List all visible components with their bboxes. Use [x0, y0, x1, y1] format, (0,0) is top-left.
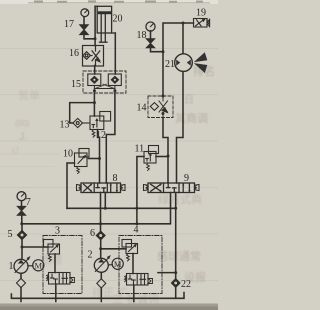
svg-text:绿方式典: 绿方式典	[158, 192, 202, 206]
sequence valve 10	[75, 149, 90, 174]
wire branch to relief 4a	[101, 248, 126, 250]
wire strainer2 to tank	[100, 288, 102, 302]
wire from valve 17 to cylinder cap line	[84, 35, 95, 39]
node above valve 14	[162, 95, 165, 98]
strainer 1	[17, 278, 26, 287]
wire valve 10 output	[89, 158, 100, 160]
drop from top bus to motor 21	[182, 23, 184, 54]
node pressure bus left end	[20, 222, 23, 225]
svg-text:4: 4	[134, 225, 139, 236]
counterbalance valve 12	[90, 112, 111, 138]
svg-text:贫单: 贫单	[18, 88, 40, 102]
wire DCV9 A-port up to throttle block 14	[163, 118, 168, 184]
strainer 2	[97, 279, 106, 288]
wire pressure bus node down to check 5	[21, 224, 23, 231]
svg-text:19: 19	[196, 8, 206, 19]
relief valve 3a	[44, 240, 60, 262]
pilot check block 15 (dashed enclosure)	[83, 71, 126, 93]
node pump2 riser on pressure bus	[99, 222, 102, 225]
faint ruled lines of paper	[0, 49, 218, 281]
shutoff valve of gauge 18	[146, 39, 154, 48]
svg-text:20: 20	[113, 14, 123, 25]
wire valve7 down to pressure bus node	[21, 215, 23, 224]
node branch to check 13	[93, 101, 96, 104]
node valve 11 output	[167, 155, 170, 158]
svg-text:10: 10	[63, 149, 73, 160]
node below block15 left	[93, 89, 96, 92]
relief valve 19	[194, 19, 210, 28]
hydraulic motor 21	[175, 52, 208, 73]
wire DCV8 P down: node to check 6	[100, 224, 102, 232]
wire line x163 above box 14 up to top bus corner	[163, 23, 194, 96]
svg-text:8: 8	[113, 173, 118, 184]
bottom scan shadow band	[0, 304, 218, 310]
check valve 13	[73, 118, 90, 127]
wire check6 to pump2	[100, 240, 102, 258]
wire valve 10 left drain to tank bus	[67, 163, 75, 208]
wire valve 11 output to motor line	[156, 156, 168, 158]
svg-text:12: 12	[96, 130, 106, 141]
svg-text:日: 日	[184, 95, 194, 106]
wire pump1 suction	[20, 273, 22, 278]
svg-text:16: 16	[69, 48, 79, 59]
wire DCV8 P-port down through bus to check 6	[100, 193, 102, 224]
svg-text:1: 1	[9, 261, 14, 272]
wire DCV 4b side port to return drop	[158, 272, 176, 274]
unloading block 3 (dashed)	[43, 236, 82, 294]
svg-text:排正 扩: 排正 扩	[92, 285, 128, 299]
node gauge-18 branch	[162, 50, 165, 53]
cylinder 20	[95, 6, 115, 42]
tank return bus	[67, 207, 176, 209]
node valve11 drop crossing tank bus	[135, 207, 138, 210]
wire check22 to tank line	[175, 287, 177, 298]
wire valve16 to block 15	[94, 66, 96, 75]
node T on tank bus	[104, 207, 107, 210]
svg-text:2: 2	[88, 250, 93, 261]
top edge scan marks	[28, 2, 210, 3]
svg-text:J.: J.	[19, 131, 28, 143]
svg-text:22: 22	[181, 279, 191, 290]
node on return drop	[174, 271, 177, 274]
wire valve 18 to main line	[151, 48, 164, 52]
electric motor M of pump 1	[28, 260, 44, 271]
pilot cross lines in block 15	[94, 84, 115, 93]
svg-text:(00): (00)	[15, 119, 30, 128]
wire relief 4a drain to DCV 4b	[132, 254, 134, 274]
relief valve 4a	[122, 240, 138, 261]
wire DCV8 T-port down to tank bus	[104, 193, 106, 209]
one-way throttle valve 14 (dashed box)	[148, 96, 173, 118]
svg-text:18: 18	[137, 30, 147, 41]
wire valve 11 left to pressure bus	[137, 157, 144, 224]
wire branch to check valve 13	[70, 103, 95, 123]
svg-text:3: 3	[55, 226, 60, 237]
wire branch to relief 3a	[22, 246, 48, 248]
node below block15 right	[113, 89, 116, 92]
wire DCV 4b to tank	[133, 285, 135, 302]
gauge 7	[17, 192, 26, 207]
node pump1 outlet branch	[21, 246, 24, 249]
svg-text:(J: (J	[12, 146, 19, 155]
wire DCV 3b to tank	[55, 284, 57, 302]
tank line	[11, 293, 184, 299]
solenoid valve 4b	[125, 274, 153, 286]
pilot check valve 15 right	[108, 74, 121, 86]
directional valve 9	[144, 183, 200, 193]
node valve10 output joins	[98, 157, 101, 160]
paper background	[0, 0, 218, 310]
wire rod-side line down to DCV 8 port B	[114, 33, 116, 74]
sequence valve 11	[144, 146, 159, 171]
wire strainer to tank	[20, 288, 22, 302]
one-way throttle valve 16	[83, 46, 104, 67]
solenoid valve 3b	[47, 273, 75, 285]
unloading block 4 (dashed)	[119, 236, 162, 294]
svg-text:5: 5	[8, 229, 13, 240]
svg-text:15: 15	[71, 79, 81, 90]
svg-text:13: 13	[60, 120, 70, 131]
svg-text:9: 9	[184, 173, 189, 184]
wire DCV9 T-port down to check 22	[175, 193, 177, 279]
svg-text:11: 11	[135, 144, 145, 155]
svg-text:17: 17	[64, 19, 74, 30]
wire pump2 suction	[100, 272, 102, 279]
wire node to pump1	[21, 247, 23, 259]
pump 2	[94, 255, 111, 272]
check valve 6	[96, 231, 105, 240]
ghost bleed-through text	[12, 64, 215, 306]
svg-text:M: M	[35, 261, 43, 271]
svg-text:M: M	[114, 259, 122, 269]
back pressure check valve 22	[171, 279, 180, 288]
svg-text:6: 6	[90, 228, 95, 239]
shutoff valve of gauge 17	[80, 25, 89, 35]
gauge 18	[146, 22, 155, 39]
shutoff valve 7	[17, 206, 25, 215]
svg-text:14: 14	[137, 103, 147, 114]
node return bus right end	[174, 207, 177, 210]
wire below valve 12 to DCV 8 port A	[98, 130, 100, 184]
wire left line down to branch node	[93, 93, 95, 116]
gauge 17	[81, 9, 89, 25]
node valve11 drop on pressure bus	[135, 222, 138, 225]
check valve 5	[17, 230, 26, 239]
pump 1	[14, 256, 31, 273]
node below valve 14	[162, 112, 165, 115]
svg-text:其商调: 其商调	[175, 111, 208, 125]
svg-text:21: 21	[165, 59, 175, 70]
svg-text:7: 7	[26, 197, 31, 208]
wire DCV9 B-port up to motor 21	[177, 72, 184, 184]
node pump2 outlet branch	[99, 247, 102, 250]
pressure bus	[22, 193, 171, 224]
wire relief 3a drain to DCV 3b	[54, 254, 56, 273]
electric motor M of pump 2	[108, 258, 123, 269]
node motor drop on top bus	[182, 22, 185, 25]
wire cylinder cap pipe to valve 16	[94, 6, 96, 45]
directional valve 8	[77, 183, 126, 193]
node at cylinder cap port	[94, 37, 97, 40]
svg-text:感球通常: 感球通常	[157, 249, 201, 263]
wire check5 to pump1 node	[21, 240, 23, 247]
pilot check valve 15 left	[88, 74, 101, 86]
